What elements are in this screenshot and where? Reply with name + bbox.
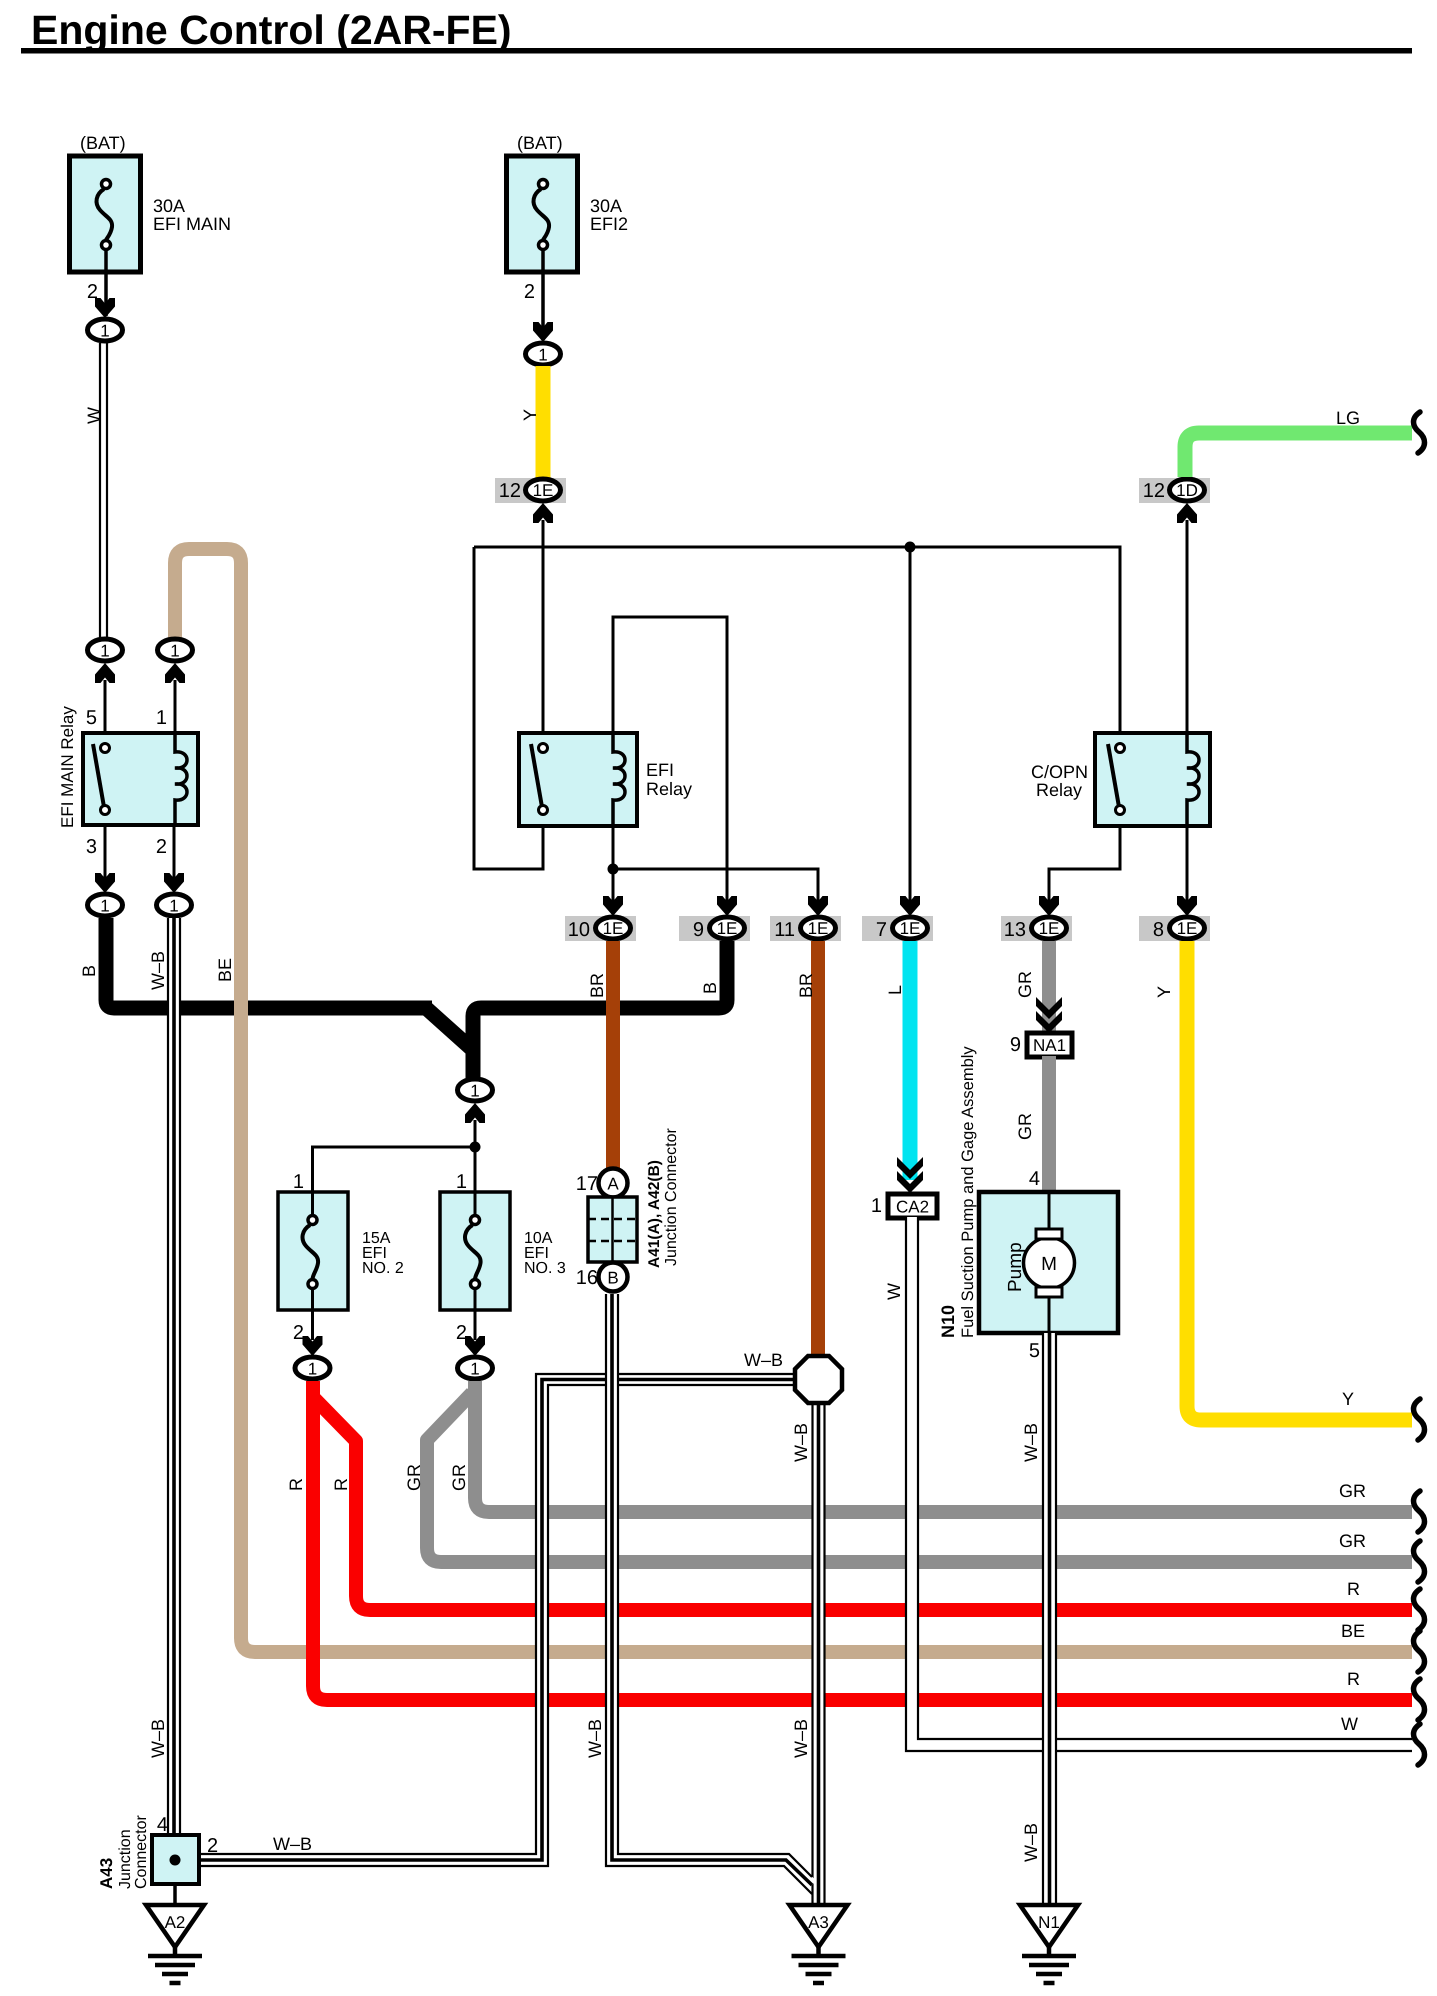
- svg-text:R: R: [1347, 1579, 1360, 1599]
- wire W-B (terminal B down to ground A3): [606, 1294, 812, 1894]
- svg-text:Fuel Suction Pump and Gage Ass: Fuel Suction Pump and Gage Assembly: [959, 1046, 977, 1338]
- arrow up into 12 1E: [533, 503, 553, 523]
- svg-text:C/OPN: C/OPN: [1031, 762, 1088, 782]
- svg-text:Junction Connector: Junction Connector: [663, 1127, 680, 1266]
- svg-text:1E: 1E: [900, 919, 921, 938]
- curly end GR upper: [1414, 1491, 1425, 1532]
- svg-text:8: 8: [1153, 919, 1164, 941]
- junction connector A43: [97, 1814, 218, 1889]
- wire W (fuse EFI MAIN to EFI MAIN relay pin 5): [100, 343, 107, 640]
- svg-text:A43: A43: [97, 1858, 116, 1889]
- connector 9 NA1: [1010, 1033, 1072, 1057]
- svg-text:W–B: W–B: [148, 1719, 168, 1758]
- svg-text:12: 12: [1143, 480, 1165, 502]
- wire EFI relay coil top loop to 9 1E: [613, 617, 727, 912]
- connector 13 1E: [1001, 916, 1072, 941]
- double arrow into CA2: [897, 1157, 923, 1193]
- wire W-B (relay pin 2 to A43 junction connector): [168, 918, 180, 1835]
- arrow up into connector (pin 5 side): [95, 663, 115, 683]
- svg-text:Connector: Connector: [133, 1815, 150, 1889]
- curly end LG: [1414, 412, 1425, 453]
- arrow into 11 1E: [808, 896, 828, 916]
- wire pin 3 down: [104, 825, 107, 880]
- svg-text:W: W: [884, 1283, 904, 1300]
- svg-text:1E: 1E: [808, 919, 829, 938]
- fuse 10A EFI NO. 3: [440, 1192, 566, 1344]
- wire C/OPN coil top to 12 1D: [1186, 520, 1189, 733]
- svg-text:(BAT): (BAT): [517, 133, 563, 153]
- svg-text:W–B: W–B: [148, 951, 168, 990]
- svg-text:1: 1: [308, 1360, 317, 1379]
- wire BE (EFI MAIN relay pin 1 up-over-down to right edge): [175, 549, 1412, 1652]
- svg-text:Junction: Junction: [117, 1829, 134, 1889]
- wire LG (12 1D up and right): [1185, 433, 1412, 477]
- svg-text:W–B: W–B: [744, 1350, 783, 1370]
- svg-text:R: R: [331, 1478, 351, 1491]
- wire C/OPN coil bottom to 8 1E: [1186, 826, 1189, 912]
- svg-text:1E: 1E: [1177, 919, 1198, 938]
- relay EFI MAIN: [58, 706, 198, 858]
- svg-text:16: 16: [576, 1267, 598, 1289]
- node splice junction dot above fuses: [470, 1142, 481, 1153]
- splice octagon: [795, 1356, 842, 1403]
- arrow into 13 1E: [1039, 896, 1059, 916]
- svg-text:W–B: W–B: [273, 1834, 312, 1854]
- svg-text:W–B: W–B: [585, 1719, 605, 1758]
- svg-text:1: 1: [470, 1360, 479, 1379]
- arrow into 9 1E: [717, 896, 737, 916]
- svg-text:BR: BR: [587, 973, 607, 998]
- svg-text:W–B: W–B: [1021, 1823, 1041, 1862]
- connector 10 1E: [565, 916, 636, 941]
- svg-text:1: 1: [170, 642, 179, 661]
- svg-text:M: M: [1041, 1254, 1057, 1275]
- wire BR (11 1E to octagon splice): [811, 941, 825, 1356]
- curly end W: [1414, 1724, 1425, 1765]
- connector 1 (below pin 2): [157, 894, 192, 916]
- svg-text:LG: LG: [1336, 408, 1360, 428]
- svg-text:1: 1: [100, 642, 109, 661]
- svg-text:W: W: [84, 407, 104, 424]
- wire C/OPN switch bottom to 13 1E: [1049, 826, 1120, 912]
- svg-text:4: 4: [1029, 1168, 1040, 1190]
- wire junction to 11 1E: [613, 869, 818, 912]
- ground N1: [1020, 1905, 1078, 1983]
- connector 1 (above relay pin 5): [88, 639, 123, 661]
- connector 1 (B wire to fuses): [458, 1079, 493, 1101]
- wire bus (EFI relay switch return up to horizontal rail): [474, 547, 543, 869]
- svg-text:1: 1: [100, 897, 109, 916]
- connector 1 (above relay pin 1): [158, 639, 193, 661]
- svg-text:17: 17: [576, 1173, 598, 1195]
- arrow into 10 1E: [603, 896, 623, 916]
- svg-text:EFI: EFI: [646, 760, 674, 780]
- curly end Y: [1414, 1399, 1425, 1440]
- svg-text:9: 9: [1010, 1034, 1021, 1056]
- wire BR (10 1E to junction connector A): [606, 941, 620, 1168]
- arrow into connector below pin 3: [95, 873, 115, 893]
- svg-text:R: R: [1347, 1669, 1360, 1689]
- fuse 30A EFI2: [507, 133, 629, 340]
- svg-text:Relay: Relay: [1036, 780, 1082, 800]
- svg-text:1E: 1E: [717, 919, 738, 938]
- wire B thick black (relay pin 3 to 9 1E and fuses): [106, 918, 727, 1078]
- wire 12 1E down to EFI relay switch: [542, 520, 545, 733]
- svg-text:1: 1: [100, 322, 109, 341]
- connector 11 1E: [770, 916, 841, 941]
- svg-text:W–B: W–B: [1021, 1423, 1041, 1462]
- svg-text:EFI MAIN Relay: EFI MAIN Relay: [58, 706, 77, 828]
- svg-text:EFI MAIN: EFI MAIN: [153, 214, 231, 234]
- wire W-B (octagon left arm down to A43 junction): [199, 1374, 795, 1866]
- connector 1 (fuse EFI MAIN out): [88, 319, 123, 341]
- wire Y (8 1E down and right to right edge): [1187, 941, 1412, 1420]
- wire L (7 1E to CA2): [903, 941, 918, 1180]
- wire GR (fuse NO.3 to right edge, upper): [475, 1381, 1412, 1512]
- connector 1 CA2: [871, 1194, 937, 1218]
- svg-text:2: 2: [524, 281, 535, 303]
- connector 1 (fuse NO.2 out): [295, 1357, 330, 1379]
- ground A3: [790, 1905, 848, 1983]
- wire EFI relay coil bottom down to 10 1E: [612, 826, 615, 912]
- wire R branch (fuse NO.2 to right edge, upper): [313, 1397, 1412, 1610]
- svg-text:GR: GR: [404, 1464, 424, 1491]
- svg-text:Y: Y: [1342, 1389, 1354, 1409]
- svg-text:2: 2: [156, 836, 167, 858]
- connector 9 1E: [679, 916, 750, 941]
- svg-text:11: 11: [774, 919, 795, 941]
- svg-text:R: R: [286, 1478, 306, 1491]
- junction connector A41(A) A42(B) terminal A: [599, 1169, 628, 1198]
- wire pin1 to connector: [174, 680, 177, 733]
- relay EFI: [519, 733, 692, 826]
- arrow into connector below pin 2: [164, 873, 184, 893]
- svg-text:1: 1: [293, 1171, 304, 1193]
- svg-text:W–B: W–B: [791, 1719, 811, 1758]
- fuse 15A EFI NO. 2: [278, 1192, 404, 1344]
- wire W-B (pump pin 5 to ground N1): [1043, 1333, 1056, 1905]
- svg-text:A2: A2: [165, 1913, 186, 1932]
- svg-text:4: 4: [157, 1814, 168, 1836]
- svg-text:BR: BR: [796, 973, 816, 998]
- wire A43 to ground A2: [173, 1884, 177, 1905]
- svg-text:B: B: [700, 982, 720, 994]
- svg-text:5: 5: [1029, 1340, 1040, 1362]
- wire GR branch (fuse NO.3 to right edge, lower): [427, 1393, 1412, 1562]
- svg-text:3: 3: [86, 836, 97, 858]
- svg-text:(BAT): (BAT): [80, 133, 126, 153]
- svg-text:B: B: [607, 1269, 618, 1288]
- svg-text:Y: Y: [520, 409, 540, 421]
- svg-text:1: 1: [871, 1195, 882, 1217]
- svg-text:GR: GR: [1015, 1113, 1035, 1140]
- svg-text:B: B: [79, 965, 99, 977]
- svg-text:GR: GR: [1339, 1481, 1366, 1501]
- svg-text:BE: BE: [1341, 1621, 1365, 1641]
- svg-text:L: L: [885, 985, 905, 995]
- wire Y (fuse EFI2 to 12 1E): [536, 366, 551, 480]
- connector 7 1E: [862, 916, 933, 941]
- N10 fuel suction pump and gage assembly: [938, 1046, 1118, 1338]
- connector 8 1E: [1139, 916, 1210, 941]
- svg-text:W: W: [1341, 1714, 1358, 1734]
- svg-text:A3: A3: [808, 1913, 829, 1932]
- svg-text:10: 10: [568, 919, 590, 941]
- svg-text:2: 2: [207, 1835, 218, 1857]
- svg-text:5: 5: [86, 707, 97, 729]
- svg-text:9: 9: [693, 919, 704, 941]
- curly end R upper: [1414, 1589, 1425, 1630]
- curly end R lower: [1414, 1679, 1425, 1720]
- ground A2: [146, 1905, 204, 1983]
- connector 1 (below pin 3): [88, 894, 123, 916]
- connector 1 (fuse EFI2 out): [526, 343, 561, 365]
- svg-text:30A: 30A: [590, 196, 622, 216]
- arrow up into connector (pin 1 side): [165, 663, 185, 683]
- arrow into 8 1E: [1177, 896, 1197, 916]
- svg-text:12: 12: [499, 480, 521, 502]
- svg-text:EFI2: EFI2: [590, 214, 628, 234]
- arrow into connector below fuse NO.2: [303, 1336, 323, 1356]
- node junction coil bottom: [608, 864, 619, 875]
- svg-text:Relay: Relay: [646, 779, 692, 799]
- relay C/OPN: [1031, 733, 1210, 826]
- curly end BE: [1414, 1631, 1425, 1672]
- node junction on rail: [905, 542, 916, 553]
- svg-text:NO. 2: NO. 2: [362, 1260, 404, 1277]
- svg-text:1E: 1E: [1039, 919, 1060, 938]
- arrow into connector below fuse EFI MAIN: [95, 298, 115, 318]
- svg-text:1E: 1E: [533, 481, 554, 500]
- wire connector down to junction and fuse EFI NO.3: [474, 1120, 477, 1192]
- svg-text:13: 13: [1004, 919, 1026, 941]
- svg-text:2: 2: [293, 1322, 304, 1344]
- svg-text:1: 1: [538, 346, 547, 365]
- svg-text:GR: GR: [449, 1464, 469, 1491]
- svg-text:BE: BE: [215, 958, 235, 982]
- svg-text:1E: 1E: [603, 919, 624, 938]
- connector 12 1E: [495, 478, 566, 503]
- svg-text:N10: N10: [938, 1305, 958, 1338]
- wire rail junction down to 7 1E: [909, 547, 912, 912]
- double arrow into NA1: [1036, 997, 1062, 1033]
- arrow up into connector: [465, 1103, 485, 1123]
- connector 12 1D: [1139, 478, 1210, 503]
- curly end GR lower: [1414, 1541, 1425, 1582]
- junction connector A41(A), A42(B) body: [588, 1127, 680, 1268]
- svg-text:GR: GR: [1015, 971, 1035, 998]
- svg-text:A: A: [607, 1175, 619, 1194]
- wire R (fuse NO.2 to right edge, lower branch): [313, 1381, 1412, 1700]
- svg-text:30A: 30A: [153, 196, 185, 216]
- arrow into connector below fuse EFI2: [533, 322, 553, 342]
- svg-text:Engine Control (2AR-FE): Engine Control (2AR-FE): [31, 7, 512, 53]
- svg-text:NO. 3: NO. 3: [524, 1260, 566, 1277]
- svg-text:W–B: W–B: [791, 1423, 811, 1462]
- svg-text:1: 1: [470, 1082, 479, 1101]
- svg-text:1D: 1D: [1176, 481, 1198, 500]
- connector 1 (fuse NO.3 out): [458, 1357, 493, 1379]
- wire W (CA2 down and right to right edge): [906, 1217, 1412, 1751]
- svg-text:1: 1: [456, 1171, 467, 1193]
- wire pin5 to connector: [104, 680, 107, 733]
- junction connector terminal B: [599, 1263, 628, 1292]
- wire W-B (octagon bottom to ground A3): [813, 1403, 825, 1905]
- svg-text:NA1: NA1: [1033, 1036, 1066, 1055]
- svg-text:N1: N1: [1038, 1913, 1060, 1932]
- fuse 30A EFI MAIN: [70, 133, 232, 316]
- svg-text:1: 1: [156, 707, 167, 729]
- arrow into connector below fuse NO.3: [465, 1336, 485, 1356]
- svg-text:A41(A), A42(B): A41(A), A42(B): [646, 1160, 663, 1268]
- arrow into 7 1E: [900, 896, 920, 916]
- wire rail to C/OPN relay switch: [474, 547, 1120, 733]
- wire junction to fuse EFI NO.2: [313, 1147, 476, 1192]
- arrow up into 12 1D: [1177, 503, 1197, 523]
- wire GR (13 1E to NA1): [1042, 941, 1056, 1032]
- svg-text:1: 1: [169, 897, 178, 916]
- svg-text:CA2: CA2: [896, 1198, 929, 1217]
- wire pin 2 down: [173, 825, 176, 880]
- svg-text:7: 7: [876, 919, 887, 941]
- wire GR (NA1 to pump pin 4): [1042, 1056, 1056, 1192]
- svg-text:Y: Y: [1154, 986, 1174, 998]
- svg-text:GR: GR: [1339, 1531, 1366, 1551]
